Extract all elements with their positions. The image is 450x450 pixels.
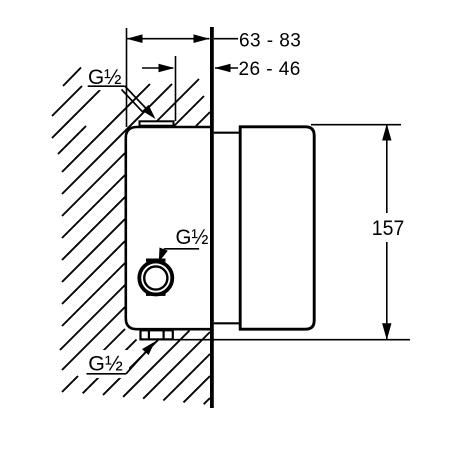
port flat top bar	[146, 259, 166, 262]
port outer circle	[139, 262, 172, 295]
wall line	[210, 27, 214, 408]
svg-text:63 - 83: 63 - 83	[239, 31, 301, 52]
escutcheon	[240, 127, 314, 329]
wall hatching	[52, 68, 210, 405]
dim ext line x=175.5	[175, 56, 177, 121]
svg-text:26 - 46: 26 - 46	[239, 59, 301, 80]
157 bottom ext line	[173, 339, 410, 341]
svg-text:157: 157	[372, 216, 405, 240]
bottom leader	[126, 350, 148, 374]
white halo top G1/2 label	[84, 62, 129, 90]
dim line 63-83	[127, 38, 210, 40]
top label underline	[88, 85, 125, 87]
dim ext line left (x=126.5)	[126, 28, 128, 127]
mid leader	[161, 249, 165, 258]
mid underline	[164, 248, 199, 250]
leader 63-83	[214, 38, 238, 40]
157 dim line	[386, 125, 388, 213]
valve body	[126, 127, 212, 329]
outlet nubs bottom	[141, 330, 173, 339]
157 top ext line	[311, 124, 401, 126]
bottom leader arrowhead	[142, 342, 155, 356]
connector bottom line	[214, 322, 239, 324]
white halo bottom G1/2 label	[83, 350, 129, 378]
mid leader arrowhead	[159, 248, 168, 263]
dim 26-46 right arrow + leader	[215, 67, 238, 69]
port inner circle	[144, 266, 167, 289]
top leader arrowhead	[142, 105, 155, 119]
port flat bottom bar	[146, 293, 166, 296]
top leader double line	[125, 86, 148, 111]
svg-text:G½: G½	[176, 226, 209, 249]
dim 26-46 left arrow	[142, 67, 173, 69]
connector top line	[214, 132, 239, 134]
svg-text:G½: G½	[88, 353, 123, 376]
inlet pad top	[140, 121, 174, 125]
bottom underline	[87, 373, 127, 375]
